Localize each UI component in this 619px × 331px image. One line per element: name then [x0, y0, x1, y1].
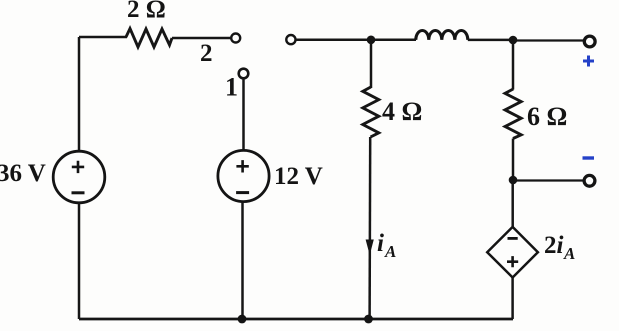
- voltage source V2 12V: [218, 150, 269, 201]
- resistor R3 6 ohm: [505, 89, 521, 139]
- resistor R2 4 ohm: [363, 87, 379, 137]
- junction dot: node c: [509, 176, 518, 185]
- svg-text:36 V: 36 V: [0, 160, 46, 187]
- svg-text:12 V: 12 V: [274, 163, 323, 190]
- wire: left rail from top corner down to 36V source top: [78, 37, 81, 151]
- junction dot: node b (top of 6 ohm): [509, 36, 518, 45]
- wire: node b to + terminal: [513, 39, 583, 41]
- wire: node a to inductor: [371, 39, 416, 42]
- wire: 36V source bottom to bottom-left corner: [78, 203, 81, 319]
- terminal node 2 (open circle): [231, 34, 240, 43]
- wire: node c down to dependent source: [511, 180, 514, 227]
- wire: dependent source bottom to bottom-right corner: [511, 278, 514, 320]
- wire: node b down to 6 ohm resistor: [512, 40, 515, 90]
- wire: input terminal to node a: [296, 38, 372, 41]
- svg-text:2: 2: [200, 40, 213, 67]
- svg-text:4 Ω: 4 Ω: [382, 97, 422, 126]
- terminal - (bold open circle): [584, 175, 595, 186]
- junction dot: 4 ohm branch at bottom rail: [364, 315, 373, 324]
- terminal node 1 (open circle): [239, 69, 249, 79]
- wire: bottom rail: [79, 318, 513, 321]
- wire: top-left from corner to resistor: [79, 36, 127, 39]
- svg-text:1: 1: [225, 73, 238, 102]
- label + (blue): [583, 56, 594, 67]
- voltage source V1 36V: [53, 151, 105, 203]
- svg-text:2 Ω: 2 Ω: [127, 0, 166, 23]
- junction dot: node a (top of 4 ohm): [367, 36, 376, 45]
- wire: 4 ohm resistor down to bottom rail: [368, 137, 371, 319]
- svg-text:6 Ω: 6 Ω: [527, 102, 567, 131]
- wire: terminal 1 down to 12V source: [242, 78, 245, 150]
- svg-text:2i: 2i: [544, 232, 564, 259]
- svg-text:A: A: [384, 242, 396, 261]
- wire: inductor to node b: [468, 39, 513, 42]
- wire: resistor to terminal 2: [172, 37, 231, 40]
- wire: node a down to 4 ohm resistor: [370, 40, 373, 88]
- current arrow iA (pointing down): [366, 240, 374, 256]
- resistor R1 2 ohm: [126, 29, 172, 48]
- inductor L1: [416, 31, 468, 40]
- svg-text:A: A: [563, 244, 575, 263]
- junction dot: 12V branch at bottom rail: [238, 315, 247, 324]
- terminal + (bold open circle): [584, 36, 595, 47]
- wire: node c to - terminal: [513, 179, 583, 181]
- wire: 12V source bottom to bottom rail: [241, 202, 244, 319]
- label - (blue): [583, 156, 595, 159]
- wire: 6 ohm down to node c: [512, 139, 515, 181]
- dependent source 2iA (diamond): [487, 227, 538, 278]
- terminal: right network input (open circle): [286, 35, 295, 44]
- svg-text:i: i: [377, 230, 384, 257]
